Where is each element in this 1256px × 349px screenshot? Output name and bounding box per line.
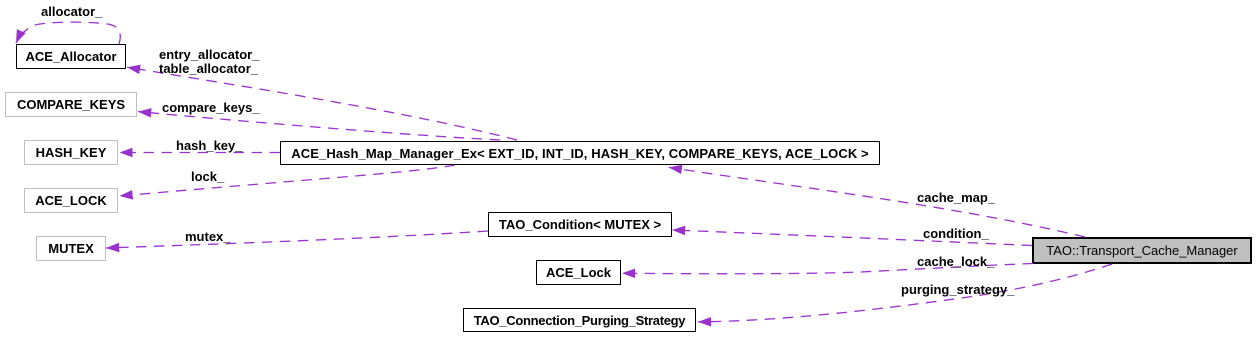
class box HASH_KEY (24, 140, 118, 165)
label lock_ (191, 170, 224, 184)
wire condition_ : TAO::Transport_Cache_Manager to TAO_Condition (672, 230, 1032, 246)
label hash_key_ (176, 139, 243, 153)
wire entry_allocator_/table_allocator_ : ACE_Hash_Map_Manager_Ex to ACE_Allocator (127, 67, 517, 140)
class box COMPARE_KEYS (5, 92, 137, 117)
label cache_lock_ (917, 255, 994, 269)
class box TAO::Transport_Cache_Manager (current, gray) (1032, 237, 1252, 264)
label cache_map_ (917, 191, 995, 205)
label mutex_ (185, 230, 231, 244)
label compare_keys_ (162, 101, 260, 115)
wire allocator_ self loop on ACE_Allocator (16, 22, 120, 44)
wire compare_keys_ : ACE_Hash_Map_Manager_Ex to COMPARE_KEYS (138, 112, 500, 140)
wire lock_ : ACE_Hash_Map_Manager_Ex to ACE_LOCK (120, 165, 456, 196)
wire mutex_ : TAO_Condition to MUTEX (106, 231, 488, 248)
label condition_ (923, 227, 989, 241)
class box ACE_Hash_Map_Manager_Ex (280, 141, 880, 165)
class box ACE_LOCK (24, 188, 118, 213)
wire hash_key_ : ACE_Hash_Map_Manager_Ex to HASH_KEY (120, 152, 281, 154)
class box ACE_Lock (536, 260, 621, 285)
label purging_strategy_ (901, 283, 1014, 297)
label entry_allocator_ / table_allocator_ (159, 48, 259, 76)
wire cache_lock_ : TAO::Transport_Cache_Manager to ACE_Lock (622, 264, 1033, 274)
class box TAO_Condition< MUTEX > (488, 212, 672, 237)
class box ACE_Allocator (16, 44, 126, 69)
label allocator_ (41, 5, 102, 19)
wire cache_map_ : TAO::Transport_Cache_Manager to ACE_Hash_Map_Manager_Ex (669, 167, 1085, 237)
wire purging_strategy_ : TAO::Transport_Cache_Manager to TAO_Connection_Purging_Strategy (698, 264, 1112, 322)
class box MUTEX (36, 236, 106, 261)
class box TAO_Connection_Purging_Strategy (463, 308, 696, 332)
